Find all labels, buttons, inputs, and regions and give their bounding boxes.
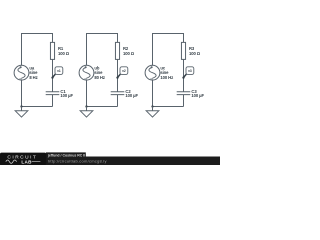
resistor R2: [115, 42, 119, 59]
wire: vertical below capacitor, circuit 2: [117, 95, 119, 107]
voltage source V3 (uc): [145, 65, 160, 80]
wire: top horizontal, circuit 3: [153, 34, 184, 66]
capacitor C1: [46, 92, 60, 95]
watermark: CircuitLab logo box: [0, 153, 46, 165]
capacitor C3: [177, 92, 191, 95]
svg-text:jeffund / Cosinus RC II: jeffund / Cosinus RC II: [47, 153, 85, 157]
wire: left vertical below source, circuit 1: [21, 80, 23, 107]
wire: top horizontal, circuit 1: [22, 34, 53, 66]
ground symbol, circuit 2: [80, 107, 93, 118]
node flag v2: [116, 67, 127, 79]
wire: bottom horizontal, circuit 2: [87, 106, 118, 108]
wire: vertical below capacitor, circuit 1: [52, 95, 54, 107]
watermark: full-width black bottom bar: [0, 157, 220, 166]
node flag v3: [182, 67, 193, 79]
wire: middle vertical between resistor and capacitor, circuit 1: [52, 59, 54, 91]
wire: bottom horizontal, circuit 1: [22, 106, 53, 108]
node flag v1: [51, 67, 62, 79]
wire: middle vertical between resistor and capacitor, circuit 2: [117, 59, 119, 91]
wire: vertical below capacitor, circuit 3: [183, 95, 185, 107]
junction: ground node, circuit 1: [20, 105, 22, 107]
svg-text:v3: v3: [188, 69, 192, 73]
junction: ground node, circuit 3: [151, 105, 153, 107]
wire: top horizontal, circuit 2: [87, 34, 118, 66]
voltage source V2 (ub): [79, 65, 94, 80]
svg-text:v2: v2: [122, 69, 126, 73]
wire: left vertical below source, circuit 3: [152, 80, 154, 107]
ground symbol, circuit 1: [15, 107, 28, 118]
capacitor C2: [111, 92, 125, 95]
junction: ground node, circuit 2: [85, 105, 87, 107]
svg-text:v1: v1: [57, 69, 61, 73]
resistor R1: [50, 42, 54, 59]
svg-text:LAB: LAB: [21, 159, 32, 164]
wire: left vertical below source, circuit 2: [86, 80, 88, 107]
voltage source V1 (ua): [14, 65, 29, 80]
watermark: circuit title strip: [46, 152, 86, 157]
ground symbol, circuit 3: [146, 107, 159, 118]
watermark: logo sine wave: [6, 160, 41, 163]
wire: middle vertical between resistor and capacitor, circuit 3: [183, 59, 185, 91]
wire: bottom horizontal, circuit 3: [153, 106, 184, 108]
resistor R3: [181, 42, 185, 59]
svg-text:http://circuitlab.com/cmcg8.ly: http://circuitlab.com/cmcg8.ly: [48, 159, 107, 164]
